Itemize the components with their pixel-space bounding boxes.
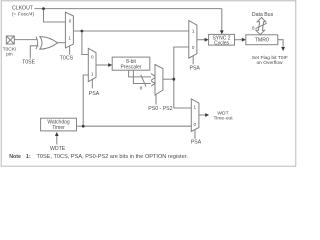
- svg-text:1: 1: [192, 29, 195, 34]
- wire mux M5 output WDT time-out: [199, 114, 206, 116]
- svg-text:PS0 - PS2: PS0 - PS2: [148, 106, 172, 112]
- svg-text:pin: pin: [6, 51, 13, 57]
- wire WDTE into watchdog timer: [56, 135, 58, 145]
- svg-text:PSA: PSA: [191, 140, 202, 146]
- svg-text:T0SE: T0SE: [22, 60, 36, 66]
- wire XOR output to mux M1 input 1: [58, 42, 66, 44]
- wire junction up to mux M4 input 0: [174, 47, 189, 79]
- svg-text:Cycles: Cycles: [214, 40, 230, 46]
- data bus arrow: [256, 18, 267, 35]
- svg-text:CLKOUT: CLKOUT: [12, 6, 34, 12]
- svg-text:0: 0: [69, 18, 72, 23]
- svg-text:1: 1: [194, 105, 197, 110]
- arrowhead TMR0 overflow down: [281, 47, 285, 51]
- arrowhead WDT time-out: [205, 113, 209, 117]
- wire mux M3 output to junction: [163, 78, 174, 80]
- wire junction down to mux M5 input 1: [174, 79, 192, 108]
- wire mux M2 output to prescaler: [96, 64, 110, 66]
- wire junction to mux M5 input 0: [83, 125, 191, 127]
- wire branch down to mux M2 input 0: [82, 31, 88, 55]
- watchdog timer box: [41, 118, 77, 131]
- junction node WDT output: [82, 125, 85, 128]
- svg-text:Data Bus: Data Bus: [252, 12, 274, 18]
- svg-text:Time-out: Time-out: [213, 116, 233, 122]
- 8-bit prescaler box: [112, 57, 150, 70]
- mux M4 PSA TMR0-clock: [189, 21, 197, 59]
- svg-text:Timer: Timer: [52, 125, 65, 131]
- arrowhead WDTE up: [55, 132, 59, 136]
- svg-text:PSA: PSA: [89, 91, 100, 97]
- wire T0SE select into XOR: [30, 46, 38, 59]
- svg-text:8: 8: [140, 85, 143, 90]
- wire mux M4 output to SYNC box: [197, 39, 206, 41]
- junction node mux M1 output: [81, 30, 84, 33]
- xor gate U1: [36, 37, 58, 50]
- wire PSA select to mux M5: [194, 130, 196, 139]
- mux M1 T0CS: [65, 12, 73, 48]
- junction node prescaler tap: [172, 78, 175, 81]
- wire vertical into SYNC box: [221, 9, 223, 32]
- mux M3 PS0-PS2: [155, 65, 163, 96]
- wire bus lower tap prescaler to mux M3: [133, 70, 151, 83]
- arrowhead into SYNC top: [220, 30, 224, 34]
- note 1 text: [9, 154, 188, 160]
- svg-text:8: 8: [252, 25, 255, 30]
- SYNC box: [209, 34, 235, 45]
- mux M2 PSA prescaler-input: [88, 48, 96, 81]
- wire WDT up to mux M2 input 1: [83, 75, 88, 126]
- svg-text:0: 0: [194, 122, 197, 127]
- mux M5 PSA WDT time-out: [191, 99, 199, 132]
- wire TMR0 overflow out: [278, 40, 283, 48]
- T0CKI pin symbol: [6, 36, 14, 44]
- register TMR0 box: [246, 35, 278, 45]
- wire branch down to mux M1 input 0: [44, 9, 66, 22]
- wire CLKOUT horizontal to SYNC drop: [35, 8, 222, 10]
- svg-text:0: 0: [91, 54, 94, 59]
- wire PS0-PS2 select to mux M3: [155, 94, 157, 104]
- wire T0CKI pin to XOR input: [14, 39, 37, 41]
- svg-text:T0CS: T0CS: [60, 56, 74, 62]
- arrowhead into TMR0: [242, 38, 246, 42]
- svg-text:PSA: PSA: [190, 65, 201, 71]
- junction node mux M1 input: [42, 7, 45, 10]
- wire T0CS select to mux M1: [69, 46, 71, 55]
- svg-text:1: 1: [91, 71, 94, 76]
- svg-text:Note 1:T0SE, T0CS, PSA, PS0-P: Note 1:T0SE, T0CS, PSA, PS0-PS2 are bits…: [9, 154, 188, 160]
- arrowhead bus lower into mux M3: [151, 81, 155, 86]
- svg-text:Prescaler: Prescaler: [120, 65, 141, 71]
- svg-text:on Overflow: on Overflow: [256, 60, 283, 66]
- svg-text:WDT: WDT: [217, 111, 228, 117]
- arrowhead into SYNC left: [205, 38, 209, 42]
- wire mux M1 output to mux M4 input 1: [73, 30, 188, 32]
- svg-text:WDTE: WDTE: [50, 146, 66, 152]
- wire watchdog output to junction: [77, 125, 84, 127]
- wire bus upper tap prescaler to mux M3: [129, 70, 151, 77]
- arrowhead into prescaler: [108, 63, 112, 67]
- svg-text:1: 1: [68, 36, 71, 41]
- wire SYNC box to TMR0: [235, 39, 243, 41]
- wire PSA select to mux M4: [192, 56, 194, 64]
- svg-text:TMR0: TMR0: [255, 38, 269, 44]
- arrowhead bus upper into mux M3: [151, 73, 156, 80]
- svg-text:Set Flag bit T0IF: Set Flag bit T0IF: [252, 55, 288, 61]
- svg-text:0: 0: [192, 45, 195, 50]
- bus width slash 8: [141, 75, 146, 87]
- svg-text:(= Fosc/4): (= Fosc/4): [12, 11, 35, 17]
- wire PSA select to mux M2: [91, 80, 93, 89]
